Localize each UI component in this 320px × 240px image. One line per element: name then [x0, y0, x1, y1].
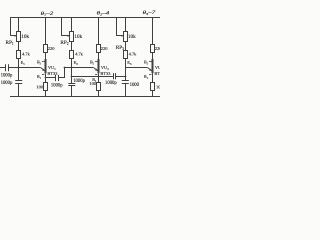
svg-text:4.7k: 4.7k	[75, 51, 83, 56]
svg-text:θ3–7: θ3–7	[143, 11, 156, 16]
svg-text:1000: 1000	[130, 83, 140, 88]
svg-text:BT33: BT33	[47, 71, 58, 76]
svg-text:100: 100	[156, 84, 160, 89]
svg-text:1000p: 1000p	[1, 81, 13, 86]
svg-text:1000p: 1000p	[1, 74, 13, 79]
svg-text:BT33: BT33	[154, 71, 160, 76]
svg-text:10k: 10k	[128, 34, 136, 40]
svg-text:1000p: 1000p	[73, 79, 85, 84]
svg-text:4.7k: 4.7k	[22, 51, 30, 56]
svg-text:100: 100	[36, 84, 44, 89]
svg-text:θ2–4: θ2–4	[97, 11, 110, 16]
svg-text:1000p: 1000p	[51, 83, 63, 88]
svg-text:10k: 10k	[21, 34, 29, 40]
svg-text:BT33: BT33	[100, 71, 111, 76]
svg-text:220: 220	[48, 46, 56, 51]
svg-text:4.7k: 4.7k	[129, 51, 137, 56]
svg-text:100: 100	[89, 81, 97, 86]
svg-text:220: 220	[155, 46, 160, 51]
svg-text:θ1–2: θ1–2	[41, 12, 54, 17]
svg-text:220: 220	[101, 46, 109, 51]
svg-text:10k: 10k	[74, 34, 82, 40]
svg-text:1000p: 1000p	[105, 81, 117, 86]
